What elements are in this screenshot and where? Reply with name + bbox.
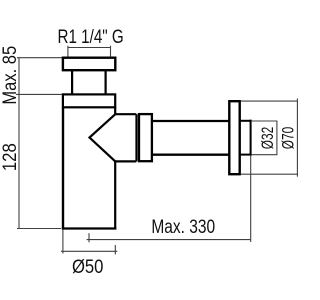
label Max. 85 (rotated) — [0, 46, 20, 105]
label R1 1/4" G thread size — [58, 25, 124, 47]
svg-text:Ø50: Ø50 — [72, 256, 103, 278]
bottle body — [62, 107, 117, 228]
svg-text:Max. 330: Max. 330 — [151, 216, 215, 238]
body top flange — [63, 94, 115, 107]
dimension O50 — [61, 230, 117, 255]
svg-text:Ø32: Ø32 — [259, 127, 278, 149]
label Max. 330 — [151, 216, 215, 238]
svg-text:Ø70: Ø70 — [280, 127, 299, 149]
horizontal outlet pipe — [152, 121, 229, 155]
left vertical dimension line (Max.85 / 128) — [16, 58, 63, 229]
outlet cone — [90, 114, 137, 161]
dimension line R1 1/4 G with end ticks — [68, 46, 111, 57]
label 128 (rotated) — [0, 143, 20, 171]
dimension Max. 330 — [87, 156, 251, 243]
wall flange (rosette) — [229, 101, 239, 174]
label O32 (rotated) — [259, 127, 278, 149]
inlet cap (top flange) — [63, 58, 115, 70]
label O70 (rotated) — [280, 127, 299, 149]
svg-text:Max. 85: Max. 85 — [0, 46, 20, 105]
dimension O32 — [252, 121, 278, 155]
compression nut — [139, 114, 152, 161]
dimension O70 — [241, 99, 298, 177]
label O50 — [72, 256, 103, 278]
svg-text:R1 1/4" G: R1 1/4" G — [58, 25, 124, 47]
threaded neck — [72, 70, 106, 94]
wall pipe stub — [240, 120, 252, 156]
svg-text:128: 128 — [0, 143, 20, 171]
